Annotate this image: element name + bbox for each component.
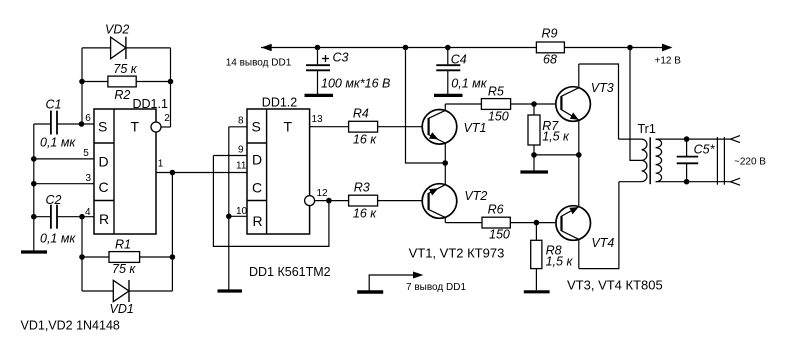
svg-text:6: 6 (85, 113, 91, 124)
resistor R1 (82, 238, 172, 277)
ground under C4 (434, 94, 463, 97)
node dot R7 bottom (531, 152, 537, 158)
svg-text:D: D (99, 153, 109, 169)
svg-text:D: D (252, 152, 262, 168)
svg-text:T: T (284, 119, 293, 135)
svg-text:150: 150 (488, 110, 509, 124)
wire pin1 down to R1/VD1 right (171, 173, 173, 292)
transistor VT2 (KT973 pnp) (422, 163, 487, 223)
pin 2 inversion circle DD1.1 (151, 122, 161, 132)
resistor R3 (349, 181, 429, 221)
node dot C1/S pin (79, 121, 85, 127)
svg-text:0,1 мк: 0,1 мк (451, 77, 487, 91)
svg-text:+12 В: +12 В (655, 56, 682, 67)
svg-text:10: 10 (236, 206, 248, 217)
svg-text:R4: R4 (353, 107, 369, 121)
resistor R5 (481, 84, 561, 123)
resistor R6 (482, 202, 562, 241)
svg-text:16 к: 16 к (353, 132, 377, 146)
svg-text:4: 4 (85, 207, 91, 218)
secondary winding (656, 139, 662, 182)
svg-text:S: S (252, 119, 261, 135)
transistor VT3 (KT805 npn) (556, 64, 614, 155)
op DD1.1 flip-flop box (94, 97, 168, 234)
core (649, 137, 651, 184)
resistor R4 (349, 107, 429, 147)
wire VT1 collector to R5 (445, 103, 481, 105)
svg-text:C3: C3 (333, 51, 349, 65)
svg-text:R2: R2 (114, 88, 130, 102)
svg-text:VT1, VT2 КТ973: VT1, VT2 КТ973 (409, 246, 505, 261)
svg-text:R6: R6 (488, 202, 504, 216)
svg-text:75 к: 75 к (112, 262, 136, 276)
svg-text:0,1 мк: 0,1 мк (40, 136, 76, 150)
secondary wires (656, 138, 731, 140)
svg-text:C4: C4 (451, 53, 467, 67)
diode VD2 (82, 22, 171, 59)
svg-text:75 к: 75 к (113, 62, 137, 76)
node dot C2/R pin (79, 214, 85, 220)
capacitor C4 (436, 48, 487, 95)
diode VD1 (82, 280, 172, 316)
svg-text:R1: R1 (115, 238, 131, 252)
wire D feedback from pin 12 (213, 156, 329, 247)
svg-text:3: 3 (86, 173, 92, 184)
svg-text:VT1: VT1 (464, 121, 487, 135)
wire pin 8 (S) (229, 126, 247, 128)
svg-text:R5: R5 (488, 84, 504, 98)
resistor R2 (82, 62, 171, 102)
svg-text:16 к: 16 к (353, 206, 377, 220)
svg-text:5: 5 (83, 148, 89, 159)
node dot R2 left (79, 79, 85, 85)
svg-text:VT4: VT4 (591, 236, 614, 250)
connector fork bottom (731, 178, 741, 185)
wire pin 12 out (315, 200, 349, 202)
svg-text:8: 8 (238, 115, 244, 126)
capacitor C2 (34, 193, 94, 246)
wire R-node down to R1/VD1 (81, 217, 83, 291)
svg-text:C: C (99, 179, 109, 195)
arrow to pin 14 of DD1 (left) (261, 44, 272, 52)
svg-text:S: S (98, 119, 107, 135)
svg-text:VT2: VT2 (464, 189, 487, 203)
svg-text:11: 11 (236, 160, 247, 171)
capacitor C1 (34, 98, 94, 150)
svg-text:7 вывод DD1: 7 вывод DD1 (406, 282, 466, 293)
transformer Tr1 (619, 48, 731, 185)
node dot C4/rail (445, 45, 451, 51)
svg-text:13: 13 (312, 114, 324, 125)
node dot R2 right (168, 79, 174, 85)
svg-text:68: 68 (543, 53, 557, 67)
svg-text:Tr1: Tr1 (638, 122, 656, 136)
svg-text:R: R (99, 211, 109, 227)
svg-text:DD1 К561ТМ2: DD1 К561ТМ2 (249, 265, 331, 279)
wire pin 13 out (310, 126, 349, 128)
svg-text:R9: R9 (542, 27, 558, 41)
svg-text:R3: R3 (354, 181, 370, 195)
pin 12 inversion circle DD1.2 (305, 196, 315, 206)
wire C pin 3 (34, 183, 94, 185)
svg-text:C2: C2 (46, 193, 62, 207)
svg-text:2: 2 (164, 113, 170, 124)
mains plug body (716, 137, 718, 185)
op DD1.2 flip-flop box (247, 96, 310, 235)
ground for 7 вывод DD1 (357, 272, 466, 294)
svg-text:0,1 мк: 0,1 мк (40, 232, 76, 246)
svg-text:12: 12 (317, 188, 329, 199)
svg-text:VD1,VD2 1N4148: VD1,VD2 1N4148 (21, 319, 120, 333)
node dot VT1/VT2 emitters (442, 160, 448, 166)
capacitor C3 (306, 48, 390, 95)
svg-text:~220 В: ~220 В (734, 157, 766, 168)
wire pin 2 (161, 126, 171, 128)
node dot C3/rail (315, 45, 321, 51)
svg-text:VT3: VT3 (591, 81, 614, 95)
node dot R5/R7 (531, 101, 537, 107)
ground DD1.2 (218, 289, 243, 292)
transistor VT4 (KT805 npn) (556, 155, 614, 269)
ground R8 (524, 290, 550, 293)
wire left ground rail (33, 124, 35, 251)
wire D pin 5 (34, 158, 94, 160)
resistor R9 (536, 27, 564, 67)
wire emitter node VT3/VT4 (534, 154, 579, 156)
node dot rail/VT1-VT2 feed (403, 45, 409, 51)
svg-text:C5*: C5* (694, 143, 716, 157)
primary winding (619, 138, 642, 140)
svg-text:100 мк*16 В: 100 мк*16 В (321, 77, 390, 91)
svg-text:9: 9 (238, 144, 244, 155)
svg-text:DD1.1: DD1.1 (133, 97, 168, 111)
svg-text:T: T (131, 119, 140, 135)
svg-text:DD1.2: DD1.2 (262, 96, 297, 110)
svg-text:1,5 к: 1,5 к (546, 254, 574, 268)
svg-text:VT3, VT4 КТ805: VT3, VT4 КТ805 (567, 278, 663, 293)
wire +12 feed to VT1/VT2 emitters (406, 48, 446, 164)
svg-text:1,5 к: 1,5 к (542, 130, 570, 144)
wire S/R ground vertical (228, 127, 230, 290)
connector fork top (731, 136, 741, 143)
arrow +12 V (right) (662, 44, 673, 52)
wire VD2 right vertical (170, 48, 172, 127)
wire VD2 left vertical (81, 48, 83, 124)
svg-text:VD2: VD2 (105, 22, 129, 36)
wire pin 1 (156, 172, 247, 174)
node dot rail/transformer tap (627, 45, 633, 51)
primary centre tap (630, 48, 642, 161)
wire VT4 collector to transformer (579, 182, 619, 269)
svg-text:14 вывод DD1: 14 вывод DD1 (226, 58, 292, 69)
transistor VT1 (KT973 pnp) (422, 104, 486, 163)
svg-text:C1: C1 (46, 98, 62, 112)
resistor R8 (531, 223, 574, 291)
ground under C3 (305, 94, 334, 97)
wire VT3 collector to transformer (579, 64, 619, 139)
wire VT2 collector to R6 (445, 222, 482, 224)
node dot R6/R8 (534, 220, 540, 226)
ground R7/VT3 (533, 155, 535, 171)
svg-text:R: R (253, 213, 263, 229)
svg-text:C: C (252, 180, 262, 196)
wire pin 9 (D) (213, 155, 247, 157)
wire pin 10 (R) (229, 215, 247, 217)
ground left rail (21, 250, 47, 253)
svg-text:1: 1 (158, 158, 164, 169)
wire top +12 rail (261, 47, 536, 49)
capacitor C5 (677, 139, 716, 182)
svg-text:150: 150 (489, 227, 510, 241)
resistor R7 (528, 104, 570, 155)
svg-text:VD1: VD1 (110, 302, 134, 316)
